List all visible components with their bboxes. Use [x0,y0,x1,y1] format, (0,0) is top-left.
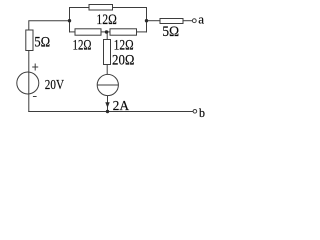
wire middle left from corner to node [29,21,70,30]
wire voltage source to bottom rail [28,92,30,112]
resistor R2 12ohm lower-left box [75,29,101,35]
resistor R5 5ohm right box [160,19,183,24]
svg-text:12Ω: 12Ω [73,38,92,54]
resistor R1 12ohm top box [89,5,113,11]
current source arrow head 2A [105,102,109,108]
wire from 20ohm to current source [106,65,108,75]
node junction dot bottom rail [106,110,109,113]
resistor R6 5ohm left vertical box [26,30,33,51]
plus sign of V1 [32,64,38,71]
wire lower branch left stub [70,31,76,33]
svg-text:a: a [198,12,204,27]
svg-text:12Ω: 12Ω [114,38,134,54]
svg-text:20Ω: 20Ω [112,53,135,69]
wire right vertical between branches [146,7,148,33]
wire left vertical between branches [69,7,71,33]
current source I1 circle [97,74,118,95]
wire 5ohm left to voltage source [28,51,30,71]
wire current source to bottom rail [107,96,109,112]
wire lower branch middle stub [101,31,110,33]
resistor R3 12ohm lower-right box [110,29,137,35]
wire bottom rail [28,111,193,113]
wire stem from lower branch to 20ohm [106,32,108,40]
terminal a open circle [192,19,196,23]
svg-text:b: b [199,105,205,118]
voltage source V1 through-wire [28,70,30,92]
wire middle right node to 5ohm [147,20,161,22]
node junction dot left [68,19,71,22]
resistor R4 20ohm vertical box [104,40,111,65]
wire top branch left segment [70,7,90,9]
voltage source V1 circle [17,72,39,94]
svg-text:20V: 20V [45,78,64,93]
svg-text:2A: 2A [113,99,130,114]
node junction dot lower branch [105,30,108,33]
node junction dot right [145,19,148,22]
wire top branch right segment [113,7,147,9]
wire lower branch right stub [137,31,147,33]
svg-text:5Ω: 5Ω [34,35,50,51]
svg-text:5Ω: 5Ω [162,24,179,40]
terminal b open circle [193,110,197,114]
current source I1 chord [97,84,118,86]
wire 5ohm to terminal a [183,20,192,22]
minus sign of V1 [33,96,37,98]
svg-text:12Ω: 12Ω [96,12,117,28]
